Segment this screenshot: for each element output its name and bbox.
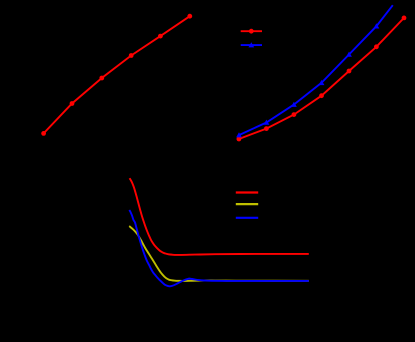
legend TR red line [241,30,262,32]
marker TL p3 [99,76,104,81]
legend bottom red line [236,191,258,193]
marker TL p2 [70,101,75,106]
marker TL p4 [129,53,134,58]
marker TR blue p6 [374,23,380,28]
marker TR red p6 [374,44,379,49]
marker TL p1 [41,131,46,136]
legend bottom blue line [236,217,258,219]
bottom subplot: olive curve (drawn first, partly under blue) [129,226,309,281]
marker TR red p4 [319,93,324,98]
legend TR blue line [241,44,262,46]
marker TR blue p2 [264,120,270,125]
marker TR blue p3 [291,102,297,107]
marker TR red p2 [264,126,269,131]
marker TR red p3 [292,112,297,117]
red series line TR [239,18,404,139]
top-right subplot: red data line with circle markers [237,16,407,142]
marker TR red p7 [402,16,407,21]
top-right subplot: blue data line with triangle markers [236,5,393,137]
bottom subplot legend [236,193,258,218]
marker TR blue p4 [319,80,325,85]
top-right subplot: legend red entry [241,29,262,48]
bottom subplot: red curve [130,178,309,255]
red series line TL [44,16,190,133]
marker TR red p5 [347,69,352,74]
marker TR red p1 [237,137,242,142]
bottom subplot: blue curve [129,210,308,286]
marker TL p5 [158,34,163,39]
marker TL p6 [187,14,192,19]
blue series line TR [239,5,393,135]
top-left subplot: red data line with circle markers [41,14,192,136]
legend TR blue triangle marker [248,42,254,47]
marker TR blue p5 [346,52,352,57]
legend TR red marker [249,29,254,34]
legend bottom olive line [236,203,258,205]
marker TR blue p1 [236,132,242,137]
